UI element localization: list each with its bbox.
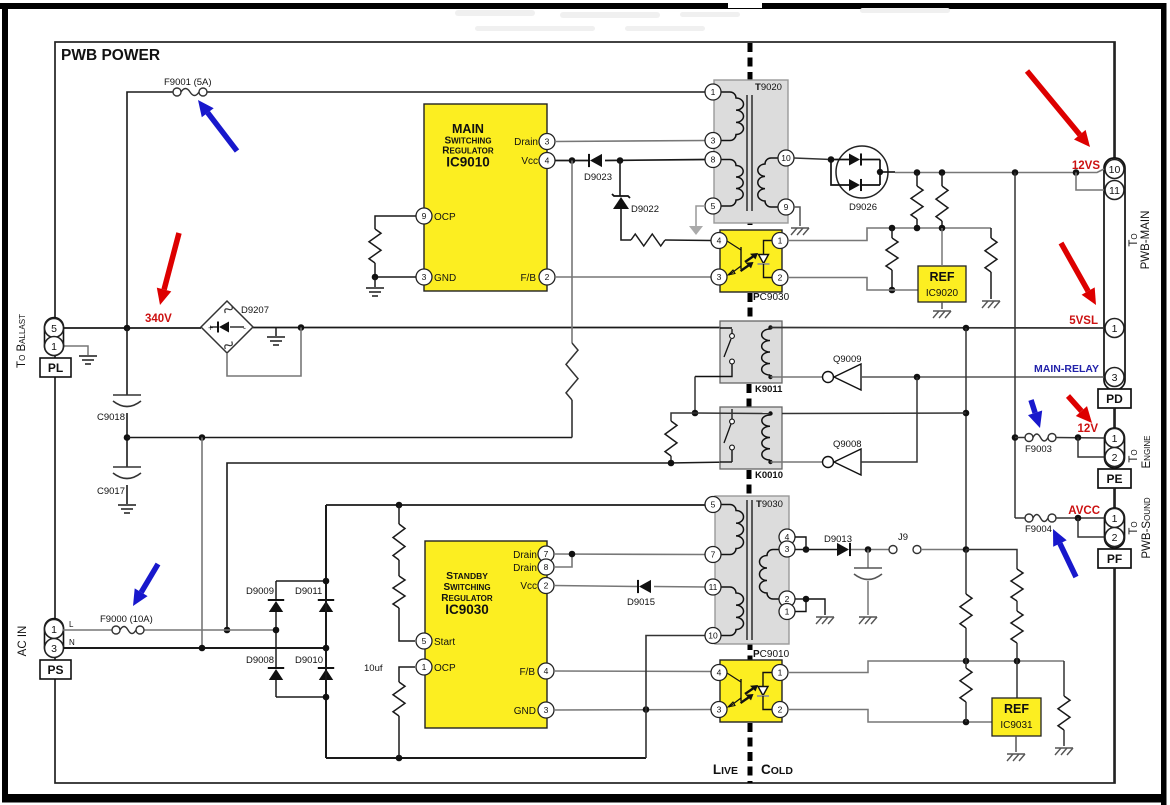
svg-text:1: 1 bbox=[51, 341, 57, 353]
ground below C9017 bbox=[118, 505, 136, 513]
resistor to PC9030 pin 4 bbox=[631, 234, 665, 246]
wire zener to resistor bbox=[621, 209, 631, 240]
svg-text:D9022: D9022 bbox=[631, 204, 659, 215]
svg-text:3: 3 bbox=[51, 643, 57, 655]
svg-text:F9004: F9004 bbox=[1025, 524, 1052, 535]
connector pin 3 (MAIN-RELAY) bbox=[1105, 368, 1124, 387]
wire Vcc dropper (x572) bbox=[571, 161, 573, 344]
svg-text:1: 1 bbox=[785, 607, 790, 617]
K9010 coil bbox=[762, 415, 770, 460]
fuse F9001 bbox=[173, 88, 207, 96]
fuse F9004 bbox=[1025, 514, 1056, 522]
svg-text:N: N bbox=[69, 638, 75, 647]
junction dot x966 y550 bbox=[963, 546, 970, 553]
wire x646 riser bbox=[646, 636, 706, 759]
svg-text:REF: REF bbox=[1004, 702, 1029, 716]
connector PL pin 5 bbox=[45, 319, 64, 338]
PC9010 light arrows bbox=[745, 689, 753, 695]
svg-text:3: 3 bbox=[717, 272, 722, 282]
svg-text:Start: Start bbox=[434, 637, 455, 648]
wire Drain to T9030 pin7 bbox=[554, 553, 706, 556]
wire to PE pin2 bbox=[1078, 438, 1104, 458]
svg-text:4: 4 bbox=[545, 156, 550, 166]
svg-text:To: To bbox=[1128, 449, 1140, 462]
svg-text:Drain: Drain bbox=[514, 137, 538, 148]
wire Q9009 to MAIN-RELAY pin bbox=[861, 376, 1104, 378]
svg-text:3: 3 bbox=[711, 136, 716, 146]
svg-text:Engine: Engine bbox=[1141, 435, 1153, 468]
IC9030 pin OCP bbox=[416, 659, 432, 675]
svg-text:J9: J9 bbox=[898, 532, 908, 543]
wire fuse F9001 to T9020 pin 1 bbox=[127, 92, 173, 328]
wire pin2 pin1 join bbox=[795, 598, 806, 600]
T9020 pin 3 bbox=[705, 133, 721, 149]
relay K9010 box bbox=[720, 407, 782, 469]
svg-text:PC9030: PC9030 bbox=[753, 292, 790, 303]
junction dot 5VSL x966 bbox=[963, 325, 970, 332]
wire PC9030 pin1 feedback bbox=[789, 228, 991, 241]
blue arrow at F9003 bbox=[1031, 400, 1035, 413]
connector PS label box bbox=[40, 660, 71, 679]
diode D9013 bbox=[837, 543, 849, 556]
wire PC9030 pin2 to REF bbox=[789, 278, 918, 291]
sense resistors x966 bbox=[965, 550, 967, 595]
smoothing capacitor after D9013 bbox=[867, 550, 869, 569]
svg-text:C9017: C9017 bbox=[97, 486, 125, 497]
isolation barrier dashed line (T9030 to PC9010) bbox=[748, 641, 753, 660]
isolation barrier dashed line (T9020 bottom) bbox=[748, 216, 753, 231]
svg-text:3: 3 bbox=[717, 705, 722, 715]
K9010 switch bbox=[731, 409, 733, 419]
svg-text:OCP: OCP bbox=[434, 663, 456, 674]
wire to PF pin2 bbox=[1078, 518, 1104, 537]
connector PF pin 2 bbox=[1105, 528, 1124, 547]
svg-text:F9001 (5A): F9001 (5A) bbox=[164, 77, 212, 88]
PC9010 pin 2 bbox=[772, 702, 788, 718]
svg-text:T9020: T9020 bbox=[755, 82, 782, 93]
svg-text:F/B: F/B bbox=[520, 273, 536, 284]
svg-text:Vcc: Vcc bbox=[520, 581, 537, 592]
connector PS shell bbox=[45, 619, 64, 657]
wire T9020 pin9 to ground bbox=[794, 207, 800, 226]
T9020 pin 8 bbox=[705, 152, 721, 168]
IC9030 pin Start bbox=[416, 633, 432, 649]
wire to pin 11 bbox=[1076, 173, 1104, 191]
feedback resistor x892 bbox=[891, 228, 893, 238]
red arrow at 340V bbox=[164, 233, 179, 290]
svg-text:PWB POWER: PWB POWER bbox=[61, 47, 160, 64]
OCP resistor of IC9030 bbox=[399, 667, 415, 682]
svg-text:PC9010: PC9010 bbox=[753, 649, 790, 660]
PC9030 LED bbox=[764, 241, 776, 255]
earth ground right of bridge bbox=[275, 328, 277, 337]
svg-text:3: 3 bbox=[422, 272, 427, 282]
svg-text:LIVE: LIVE bbox=[713, 762, 738, 777]
PC9030 pin 1 bbox=[772, 233, 788, 249]
junction dots y661 bbox=[963, 658, 970, 665]
svg-text:2: 2 bbox=[545, 272, 550, 282]
junction dots on x326 bbox=[323, 578, 330, 585]
svg-text:11: 11 bbox=[709, 582, 718, 592]
wire REF IC9031 to ground bbox=[1015, 736, 1017, 752]
PC9010 LED bbox=[763, 673, 774, 687]
op REF IC9031 box bbox=[992, 698, 1041, 736]
svg-text:PS: PS bbox=[47, 663, 63, 677]
T9030 pin 1 bbox=[779, 604, 795, 620]
T9030 pin 3 bbox=[779, 541, 795, 557]
op REF IC9020 box bbox=[918, 266, 966, 302]
junction dots on y228 bbox=[889, 225, 896, 232]
wire C9017 to ground bbox=[126, 485, 128, 504]
svg-text:4: 4 bbox=[717, 668, 722, 678]
T9020 core bbox=[746, 95, 748, 211]
PC9010 pin 3 bbox=[711, 702, 727, 718]
svg-text:L: L bbox=[69, 620, 74, 629]
svg-text:4: 4 bbox=[717, 236, 722, 246]
svg-text:F/B: F/B bbox=[519, 667, 535, 678]
wire K9010 coil to x966 bbox=[782, 412, 966, 415]
wire border to PWB-MAIN connector bbox=[1113, 42, 1115, 159]
svg-text:COLD: COLD bbox=[761, 762, 793, 777]
red arrow at 12VS bbox=[1027, 71, 1080, 135]
diode D9008 bbox=[268, 667, 284, 669]
connector PF shell bbox=[1105, 508, 1125, 548]
isolation barrier dashed line (K9010 to T9030) bbox=[747, 470, 752, 496]
junction dot x892 y290 bbox=[889, 287, 896, 294]
op IC9030 standby regulator box bbox=[425, 541, 547, 728]
12VS divider resistor 1 bbox=[916, 173, 918, 187]
wire to ground T9030 sec bbox=[806, 599, 825, 615]
svg-text:D9015: D9015 bbox=[627, 597, 655, 608]
connector pin 1 (5VSL) bbox=[1105, 319, 1124, 338]
wire K9010 coil bottom to Q9008 bbox=[771, 461, 823, 463]
wire C9018 branch bbox=[126, 328, 128, 395]
hatched ground at T9020 pin 9 bbox=[791, 228, 809, 235]
PC9010 pin 1 bbox=[772, 665, 788, 681]
junction dot x695 y413 bbox=[692, 410, 699, 417]
T9020 pin 1 bbox=[705, 84, 721, 100]
wire pin3 to D9013 bbox=[795, 549, 837, 551]
svg-text:AC IN: AC IN bbox=[17, 626, 29, 657]
transformer T9030 box bbox=[715, 496, 789, 644]
PC9030 pin 2 bbox=[772, 270, 788, 286]
junction dot x966 y413 bbox=[963, 410, 970, 417]
junction dot GND x646 bbox=[643, 706, 650, 713]
diode D9010 bbox=[318, 667, 334, 669]
connector PS pin 3 bbox=[45, 639, 64, 658]
T9030 pin 11 bbox=[705, 579, 721, 595]
svg-text:Vcc: Vcc bbox=[521, 156, 538, 167]
svg-text:D9207: D9207 bbox=[241, 305, 269, 316]
wire Vcc to T9020 pin 8 bbox=[555, 160, 588, 162]
svg-text:GND: GND bbox=[434, 273, 456, 284]
wire Q9008 up to relay wire bbox=[861, 377, 917, 462]
wire PE to PF bbox=[1113, 488, 1115, 508]
connector pin 11 bbox=[1105, 181, 1124, 200]
svg-text:7: 7 bbox=[711, 550, 716, 560]
wire F9004 to PF pin1 bbox=[1056, 517, 1104, 519]
svg-text:D9011: D9011 bbox=[295, 586, 322, 597]
isolation barrier dashed line (top) bbox=[748, 43, 753, 80]
hatched ground below REF IC9031 bbox=[1007, 754, 1025, 761]
svg-text:REF: REF bbox=[930, 270, 955, 284]
svg-text:2: 2 bbox=[778, 705, 783, 715]
fuse F9000 bbox=[112, 626, 144, 634]
wire Vcc to T9030 pin11 bbox=[554, 586, 637, 587]
svg-text:2: 2 bbox=[778, 273, 783, 283]
svg-text:To: To bbox=[1128, 521, 1140, 534]
resistor to ground x991 bbox=[990, 228, 992, 238]
junction dot L-wire x227 bbox=[224, 627, 231, 634]
svg-text:D9013: D9013 bbox=[824, 534, 852, 545]
junction dot pin2/1 bbox=[803, 596, 810, 603]
connector PL pin 1 bbox=[45, 337, 64, 356]
svg-text:3: 3 bbox=[545, 137, 550, 147]
junction dot pin3/4 bbox=[803, 546, 810, 553]
wire K9010 coil top feed bbox=[695, 412, 770, 415]
svg-text:D9009: D9009 bbox=[246, 586, 274, 597]
svg-text:GND: GND bbox=[514, 706, 536, 717]
svg-text:D9010: D9010 bbox=[295, 655, 323, 666]
svg-text:STANDBY: STANDBY bbox=[446, 570, 488, 582]
svg-text:PWB-Sound: PWB-Sound bbox=[1141, 497, 1153, 558]
hatched ground below capacitor bbox=[859, 617, 877, 624]
junction dot GND resistor bbox=[372, 274, 379, 281]
wire coil-node resistor bbox=[671, 413, 695, 421]
T9020 primary winding 2 bbox=[721, 160, 743, 207]
T9020 secondary winding bbox=[758, 158, 779, 207]
PC9030 pin 4 bbox=[711, 233, 727, 249]
op IC9010 main regulator box bbox=[424, 104, 547, 291]
svg-text:IC9010: IC9010 bbox=[446, 155, 490, 170]
wire K9011 coil bottom to Q9009 bbox=[771, 376, 823, 378]
svg-text:1: 1 bbox=[1112, 433, 1118, 445]
zener D9022 branch bbox=[619, 161, 621, 197]
wire x1017 to REF IC9031 bbox=[1016, 661, 1018, 698]
blue arrow at F9004 bbox=[1060, 543, 1076, 577]
svg-text:PD: PD bbox=[1106, 392, 1123, 406]
PC9030 pin 3 bbox=[711, 269, 727, 285]
T9030 pin 2 bbox=[779, 591, 795, 607]
hatched ground T9030 secondary bbox=[816, 617, 834, 624]
fuse F9003 bbox=[1015, 437, 1025, 439]
wire J9 to AVCC chain bbox=[921, 549, 966, 551]
junction dot D column L bbox=[273, 627, 280, 634]
bridge output loop wire bbox=[227, 328, 301, 377]
junction dot x671 y463 bbox=[668, 460, 675, 467]
twin diode D9026 bbox=[836, 146, 888, 198]
wire OCP resistor bbox=[375, 216, 416, 229]
junction dots 12VS rail bbox=[914, 169, 921, 176]
wire switched-live (x227 riser) bbox=[227, 463, 668, 630]
svg-text:AVCC: AVCC bbox=[1068, 505, 1100, 517]
svg-text:C9018: C9018 bbox=[97, 412, 125, 423]
connector PE pin 1 bbox=[1105, 429, 1124, 448]
AVCC feed resistors x1017 bbox=[966, 550, 1017, 570]
wire FB to PC9030 pin 3 bbox=[555, 276, 711, 278]
wire diode column top bbox=[276, 580, 326, 582]
svg-text:To Ballast: To Ballast bbox=[16, 314, 28, 368]
svg-text:F9003: F9003 bbox=[1025, 444, 1052, 455]
svg-text:Drain: Drain bbox=[513, 550, 537, 561]
svg-text:Drain: Drain bbox=[513, 563, 537, 574]
connector PF label box bbox=[1098, 549, 1131, 568]
junction dot 340V at x127 bbox=[124, 325, 131, 332]
12VS divider resistor 2 bbox=[941, 173, 943, 187]
T9030 core bbox=[746, 500, 748, 640]
svg-text:MAIN-RELAY: MAIN-RELAY bbox=[1034, 363, 1099, 375]
junction dot C9018/C9017 bbox=[124, 434, 131, 441]
wire 5VSL riser x966 bbox=[965, 328, 967, 550]
T9030 pin 4 bbox=[779, 529, 795, 545]
isolation barrier dashed line (K9011 to K9010) bbox=[747, 384, 752, 407]
svg-text:D9008: D9008 bbox=[246, 655, 274, 666]
wire 340V rail (PL to bridge) bbox=[63, 327, 201, 329]
jumper J9 bbox=[889, 546, 897, 554]
hatched ground x1064 bbox=[1055, 748, 1073, 755]
junction dot return x399 bbox=[396, 755, 403, 762]
svg-text:IC9020: IC9020 bbox=[926, 288, 959, 299]
wire F9003 to PE pin1 bbox=[1056, 437, 1104, 440]
capacitor C9018 bbox=[113, 395, 141, 407]
connector PS pin 1 bbox=[45, 620, 64, 639]
svg-text:-: - bbox=[243, 323, 246, 333]
svg-text:OCP: OCP bbox=[434, 212, 456, 223]
svg-text:1: 1 bbox=[51, 624, 57, 636]
svg-text:1: 1 bbox=[711, 87, 716, 97]
diode D9015 bbox=[639, 580, 651, 593]
junction dot drain bbox=[569, 551, 576, 558]
wire PL pin1 to ground bbox=[63, 346, 88, 355]
svg-text:5: 5 bbox=[422, 636, 427, 646]
svg-text:9: 9 bbox=[784, 202, 789, 212]
svg-text:4: 4 bbox=[544, 666, 549, 676]
svg-text:T9030: T9030 bbox=[756, 499, 783, 510]
isolation barrier dashed line (bottom, Live/Cold) bbox=[748, 723, 753, 783]
diode D9011 bbox=[318, 599, 334, 601]
wire DC link (C9018 junction to Vcc resistor) bbox=[127, 437, 572, 439]
svg-text:12VS: 12VS bbox=[1072, 160, 1100, 172]
svg-text:10: 10 bbox=[781, 153, 791, 163]
svg-text:2: 2 bbox=[544, 581, 549, 591]
wire 12VS rail bbox=[895, 172, 1076, 174]
bridge rectifier D9207 bbox=[201, 301, 253, 353]
junction dot main-relay x917 bbox=[914, 374, 921, 381]
wire K9011 coil to 5VSL bbox=[771, 327, 1105, 330]
isolation barrier dashed line (PC9030 to K9011) bbox=[748, 293, 753, 321]
junction dot N x202 bbox=[199, 645, 206, 652]
svg-text:F9000 (10A): F9000 (10A) bbox=[100, 614, 153, 625]
connector To PWB-MAIN shell bbox=[1104, 158, 1125, 390]
svg-text:SWITCHING: SWITCHING bbox=[444, 136, 491, 147]
wire 12V riser x1015 bbox=[1014, 173, 1016, 519]
T9030 pin 10 bbox=[705, 628, 721, 644]
svg-text:1: 1 bbox=[1112, 513, 1118, 525]
svg-text:Q9009: Q9009 bbox=[833, 354, 862, 365]
wire diode column bottom bbox=[276, 696, 326, 698]
junction dot 12V bbox=[1075, 434, 1082, 441]
junction dot x399 top bbox=[396, 502, 403, 509]
PC9010 pin 4 bbox=[711, 665, 727, 681]
T9020 pin 5 bbox=[705, 198, 721, 214]
svg-text:3: 3 bbox=[1112, 372, 1118, 384]
red arrow at 5VSL bbox=[1061, 243, 1088, 291]
connector pin 10 bbox=[1105, 160, 1124, 179]
wire L from PS through fuse F9000 bbox=[63, 629, 112, 631]
diode D9023 bbox=[590, 154, 602, 167]
svg-text:K0010: K0010 bbox=[755, 470, 783, 481]
relay K9011 box bbox=[720, 321, 782, 383]
wire pin4 jog bbox=[795, 537, 806, 549]
T9030 secondary winding bbox=[760, 550, 780, 600]
junction dot F9003 feed bbox=[1012, 434, 1019, 441]
junction dot at bridge loop bbox=[298, 324, 305, 331]
svg-text:PE: PE bbox=[1106, 472, 1122, 486]
svg-text:12V: 12V bbox=[1078, 423, 1099, 435]
hatched ground x991 bbox=[982, 301, 1000, 308]
wire PF to bottom border bbox=[1113, 568, 1115, 783]
svg-text:8: 8 bbox=[544, 562, 549, 572]
svg-text:10uf: 10uf bbox=[364, 663, 383, 674]
svg-text:1: 1 bbox=[778, 668, 783, 678]
start-up resistor chain bbox=[398, 505, 400, 524]
svg-text:2: 2 bbox=[1112, 452, 1118, 464]
wire top of standby loop bbox=[326, 504, 706, 506]
svg-text:IC9031: IC9031 bbox=[1000, 720, 1033, 731]
junction dot y722 bbox=[963, 719, 970, 726]
junction dot D9023 x620 bbox=[617, 157, 624, 164]
svg-text:3: 3 bbox=[544, 705, 549, 715]
opto PC9010 box bbox=[720, 660, 782, 722]
wire to fuse F9004 bbox=[1015, 517, 1025, 519]
ground at PL pin 1 bbox=[79, 356, 97, 364]
svg-text:2: 2 bbox=[1112, 532, 1118, 544]
junction dot at x202 bbox=[199, 434, 206, 441]
IC9010 pin GND bbox=[416, 269, 432, 285]
PC9010 transistor bbox=[727, 673, 741, 682]
transformer T9020 box bbox=[714, 80, 788, 223]
T9030 pin 5 bbox=[705, 497, 721, 513]
wire C9018 to C9017 bbox=[126, 413, 128, 467]
svg-text:IC9030: IC9030 bbox=[445, 602, 489, 617]
T9030 winding 5-7 bbox=[721, 505, 744, 555]
svg-text:5: 5 bbox=[51, 323, 57, 335]
chassis ground at T9020 pin 5 bbox=[696, 206, 705, 226]
T9030 winding 11-10 bbox=[721, 587, 744, 636]
svg-text:5: 5 bbox=[711, 201, 716, 211]
T9020 pin 10 bbox=[778, 150, 794, 166]
svg-text:MAIN: MAIN bbox=[452, 122, 484, 136]
wire x202 down to N bbox=[201, 438, 203, 649]
svg-text:340V: 340V bbox=[145, 313, 172, 325]
PC9030 transistor bbox=[727, 241, 741, 250]
red arrow at 12V bbox=[1068, 396, 1081, 411]
wire 340V into K9011 switch bbox=[720, 327, 732, 329]
wire N from PS bbox=[63, 647, 326, 649]
standby primary bus (x326) bbox=[325, 505, 327, 758]
wire K9011 switch to K9010 coil node bbox=[694, 377, 696, 414]
wire REF top bbox=[941, 228, 943, 266]
blue arrow at F9001 bbox=[208, 113, 237, 151]
junction dot cap branch bbox=[865, 546, 872, 553]
connector PD label box bbox=[1098, 389, 1131, 408]
svg-text:1: 1 bbox=[422, 662, 427, 672]
resistor x1064 bbox=[1063, 661, 1065, 696]
svg-text:7: 7 bbox=[544, 549, 549, 559]
svg-text:5VSL: 5VSL bbox=[1069, 315, 1098, 327]
wire GND to PC9010 pin3 bbox=[554, 709, 711, 712]
connector PL label box bbox=[40, 358, 71, 377]
